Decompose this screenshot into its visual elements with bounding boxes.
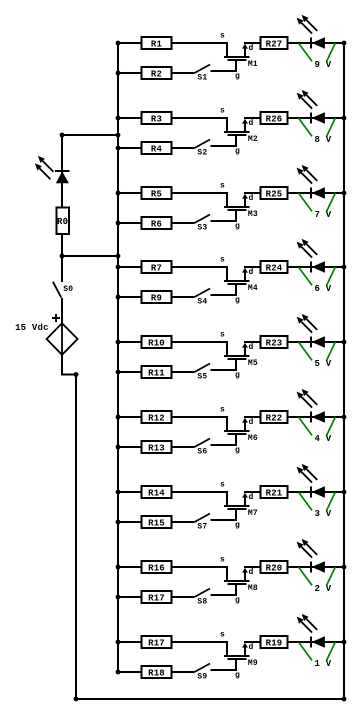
svg-text:M3: M3 xyxy=(248,210,258,219)
resistor R24 xyxy=(261,261,288,273)
svg-text:1 V: 1 V xyxy=(315,659,332,669)
svg-text:R12: R12 xyxy=(148,413,165,423)
junction on bus at tee xyxy=(116,254,121,259)
resistor R26 xyxy=(261,112,288,124)
junction bottom right corner xyxy=(342,697,347,702)
wire bus to R17 xyxy=(118,596,142,598)
svg-text:d: d xyxy=(249,44,254,53)
svg-text:R13: R13 xyxy=(148,443,165,453)
voltage marker 6 V xyxy=(299,267,336,294)
resistor R12 (row 6 top) xyxy=(142,411,172,423)
switch S4 xyxy=(195,289,211,307)
resistor R15 (row 7 bottom) xyxy=(142,516,172,528)
voltage marker 9 V xyxy=(299,43,336,70)
pin label d xyxy=(249,568,254,577)
wire gate lead xyxy=(211,284,237,295)
wire bus to R5 xyxy=(118,192,142,194)
resistor R3 (row 2 top) xyxy=(142,112,172,124)
wire bus to R11 xyxy=(118,371,142,373)
transistor M7 xyxy=(224,493,258,518)
wire R25 to bus xyxy=(288,192,345,194)
wire R27 to bus xyxy=(288,42,345,44)
pin label s xyxy=(220,405,225,414)
resistor R2 (row 1 bottom) xyxy=(142,67,172,79)
svg-text:g: g xyxy=(235,371,240,380)
wire bus to R7 xyxy=(118,266,142,268)
junction R17 row xyxy=(116,595,121,600)
wire source lead xyxy=(172,342,228,356)
svg-text:s: s xyxy=(220,555,225,564)
LED row 7 xyxy=(297,464,325,498)
LED row 2 xyxy=(297,90,325,124)
svg-text:R18: R18 xyxy=(148,668,165,678)
svg-text:R0: R0 xyxy=(57,217,68,227)
wire R9 to switch xyxy=(172,296,195,298)
resistor R13 (row 6 bottom) xyxy=(142,441,172,453)
svg-text:R4: R4 xyxy=(151,144,163,154)
switch S6 xyxy=(195,439,211,457)
svg-text:R14: R14 xyxy=(148,488,165,498)
svg-text:R26: R26 xyxy=(266,114,283,124)
switch S3 xyxy=(195,215,211,233)
svg-text:R27: R27 xyxy=(266,39,283,49)
wire R18 to switch xyxy=(172,671,195,673)
wire drain to R26 xyxy=(244,117,260,119)
junction R1 row xyxy=(116,41,121,46)
svg-text:M7: M7 xyxy=(248,509,258,518)
wire source lead xyxy=(172,417,228,431)
voltage marker 3 V xyxy=(299,492,336,519)
wire left bus xyxy=(117,42,119,673)
svg-text:R9: R9 xyxy=(151,293,162,303)
pin label s xyxy=(220,330,225,339)
svg-text:R22: R22 xyxy=(266,413,283,423)
resistor R25 xyxy=(261,187,288,199)
svg-text:g: g xyxy=(235,671,240,680)
transistor M8 xyxy=(224,568,258,593)
junction R13 row xyxy=(116,445,121,450)
pin label s xyxy=(220,31,225,40)
svg-text:M9: M9 xyxy=(248,659,258,668)
svg-text:9 V: 9 V xyxy=(315,60,332,70)
switch S7 xyxy=(195,514,211,532)
svg-text:M4: M4 xyxy=(248,284,258,293)
wire drain to R25 xyxy=(244,192,260,194)
wire bus to R16 xyxy=(118,566,142,568)
wire R6 to switch xyxy=(172,222,195,224)
svg-text:g: g xyxy=(235,596,240,605)
pin label g xyxy=(235,296,240,305)
junction R2 row xyxy=(116,71,121,76)
resistor R27 xyxy=(261,37,288,49)
svg-text:d: d xyxy=(249,493,254,502)
svg-text:g: g xyxy=(235,446,240,455)
pin label s xyxy=(220,255,225,264)
svg-text:M8: M8 xyxy=(248,584,258,593)
svg-text:M6: M6 xyxy=(248,434,258,443)
wire source lead xyxy=(172,567,228,581)
wire source lead xyxy=(172,118,228,132)
wire R19 to bus xyxy=(288,641,345,643)
wire R11 to switch xyxy=(172,371,195,373)
svg-text:M1: M1 xyxy=(248,60,258,69)
plus sign xyxy=(52,314,60,322)
junction at source bottom corner xyxy=(74,372,79,377)
svg-text:2 V: 2 V xyxy=(315,584,332,594)
pin label d xyxy=(249,643,254,652)
wire source lead xyxy=(172,267,228,281)
svg-text:R10: R10 xyxy=(148,338,165,348)
wire bus to R18 xyxy=(118,671,142,673)
pin label g xyxy=(235,72,240,81)
pin label g xyxy=(235,521,240,530)
wire bus to R13 xyxy=(118,446,142,448)
svg-text:R21: R21 xyxy=(266,488,283,498)
voltage marker 4 V xyxy=(299,417,336,444)
switch S2 xyxy=(195,140,211,158)
svg-text:s: s xyxy=(220,31,225,40)
resistor R6 (row 3 bottom) xyxy=(142,217,172,229)
pin label d xyxy=(249,343,254,352)
wire bus to R4 xyxy=(118,147,142,149)
wire bus to R1 xyxy=(118,42,142,44)
wire drain to R23 xyxy=(244,341,260,343)
LED row 6 xyxy=(297,389,325,423)
svg-text:d: d xyxy=(249,568,254,577)
resistor R17 (row 8 bottom) xyxy=(142,591,172,603)
wire drain to R19 xyxy=(244,641,260,643)
svg-text:M2: M2 xyxy=(248,135,258,144)
wire bus to R3 xyxy=(118,117,142,119)
wire source lead xyxy=(172,492,228,506)
svg-text:S5: S5 xyxy=(197,373,207,382)
LED row 1 xyxy=(297,15,325,49)
wire R21 to bus xyxy=(288,491,345,493)
resistor R9 (row 4 bottom) xyxy=(142,291,172,303)
svg-text:d: d xyxy=(249,418,254,427)
svg-text:3 V: 3 V xyxy=(315,509,332,519)
svg-text:15 Vdc: 15 Vdc xyxy=(15,323,49,333)
svg-text:S3: S3 xyxy=(197,224,207,233)
LED row 3 xyxy=(297,165,325,199)
svg-text:s: s xyxy=(220,405,225,414)
switch S1 xyxy=(195,65,211,83)
junction LED to bus xyxy=(342,41,347,46)
svg-text:d: d xyxy=(249,643,254,652)
resistor R1 (row 1 top) xyxy=(142,37,172,49)
pin label d xyxy=(249,44,254,53)
resistor R20 xyxy=(261,561,288,573)
svg-text:d: d xyxy=(249,268,254,277)
svg-text:R6: R6 xyxy=(151,219,162,229)
wire bus to R6 xyxy=(118,222,142,224)
junction LED to bus xyxy=(342,565,347,570)
pin label d xyxy=(249,194,254,203)
junction R0 bottom tee xyxy=(60,254,65,259)
wire gate lead xyxy=(211,135,237,146)
voltage marker 7 V xyxy=(299,193,336,220)
junction on bus at top connect xyxy=(116,133,121,138)
svg-text:s: s xyxy=(220,106,225,115)
pin label g xyxy=(235,446,240,455)
transistor M4 xyxy=(224,268,258,293)
svg-text:S7: S7 xyxy=(197,523,207,532)
junction R7 row xyxy=(116,265,121,270)
pin label s xyxy=(220,106,225,115)
pin label d xyxy=(249,493,254,502)
resistor R21 xyxy=(261,486,288,498)
junction LED to bus xyxy=(342,265,347,270)
pin label g xyxy=(235,596,240,605)
switch S0 xyxy=(53,282,73,298)
svg-text:S9: S9 xyxy=(197,673,207,682)
svg-text:g: g xyxy=(235,222,240,231)
wire R2 to switch xyxy=(172,72,195,74)
wire bottom rail xyxy=(76,698,344,700)
junction LED to bus xyxy=(342,191,347,196)
junction LED to bus xyxy=(342,490,347,495)
voltage marker 8 V xyxy=(299,118,336,145)
transistor M1 xyxy=(224,44,258,69)
svg-text:4 V: 4 V xyxy=(315,434,332,444)
svg-text:s: s xyxy=(220,480,225,489)
svg-text:R16: R16 xyxy=(148,563,165,573)
junction R6 row xyxy=(116,221,121,226)
wire bus to R9 xyxy=(118,296,142,298)
wire left branch vertical to R0 xyxy=(61,135,63,208)
pin label s xyxy=(220,480,225,489)
wire source lead xyxy=(172,193,228,207)
voltage marker 1 V xyxy=(299,642,336,669)
wire bus to R17 xyxy=(118,641,142,643)
pin label g xyxy=(235,371,240,380)
svg-text:R25: R25 xyxy=(266,189,283,199)
wire S0 to source xyxy=(61,298,63,324)
source V0 diamond xyxy=(47,323,78,355)
svg-text:M5: M5 xyxy=(248,359,258,368)
transistor M2 xyxy=(224,119,258,144)
svg-text:R2: R2 xyxy=(151,69,162,79)
transistor M5 xyxy=(224,343,258,368)
voltage marker 2 V xyxy=(299,567,336,594)
resistor R19 xyxy=(261,636,288,648)
pin label d xyxy=(249,418,254,427)
transistor M3 xyxy=(224,194,258,219)
wire gate lead xyxy=(211,210,237,221)
wire drain to R21 xyxy=(244,491,260,493)
switch S5 xyxy=(195,364,211,382)
svg-text:R17: R17 xyxy=(148,593,165,603)
junction LED to bus xyxy=(342,116,347,121)
junction R3 row xyxy=(116,116,121,121)
resistor R22 xyxy=(261,411,288,423)
resistor R18 (row 9 bottom) xyxy=(142,666,172,678)
pin label d xyxy=(249,268,254,277)
switch S8 xyxy=(195,589,211,607)
svg-text:g: g xyxy=(235,521,240,530)
wire R4 to switch xyxy=(172,147,195,149)
wire drain to R24 xyxy=(244,266,260,268)
wire R24 to bus xyxy=(288,266,345,268)
svg-text:d: d xyxy=(249,343,254,352)
svg-text:S8: S8 xyxy=(197,598,207,607)
wire gate lead xyxy=(211,659,237,670)
LED row 4 xyxy=(297,239,325,273)
wire R26 to bus xyxy=(288,117,345,119)
svg-text:R15: R15 xyxy=(148,518,165,528)
resistor R11 (row 5 bottom) xyxy=(142,366,172,378)
pin label s xyxy=(220,630,225,639)
svg-text:d: d xyxy=(249,194,254,203)
junction R17 row xyxy=(116,640,121,645)
svg-text:5 V: 5 V xyxy=(315,359,332,369)
wire R0 to switch S0 xyxy=(61,234,63,282)
junction R12 row xyxy=(116,415,121,420)
resistor R14 (row 7 top) xyxy=(142,486,172,498)
voltage marker 5 V xyxy=(299,342,336,369)
wire tee to bus xyxy=(62,255,118,257)
svg-text:g: g xyxy=(235,72,240,81)
wire R17 to switch xyxy=(172,596,195,598)
svg-text:R3: R3 xyxy=(151,114,162,124)
svg-text:S4: S4 xyxy=(197,298,207,307)
pin label s xyxy=(220,555,225,564)
svg-text:R23: R23 xyxy=(266,338,283,348)
wire R20 to bus xyxy=(288,566,345,568)
junction LED to bus xyxy=(342,340,347,345)
junction R4 row xyxy=(116,146,121,151)
svg-text:s: s xyxy=(220,255,225,264)
pin label g xyxy=(235,222,240,231)
svg-text:8 V: 8 V xyxy=(315,135,332,145)
svg-text:R20: R20 xyxy=(266,563,283,573)
resistor R17 (row 9 top) xyxy=(142,636,172,648)
pin label s xyxy=(220,181,225,190)
wire source to bottom rail xyxy=(62,354,76,699)
wire gate lead xyxy=(211,359,237,370)
svg-text:R5: R5 xyxy=(151,189,162,199)
svg-text:R1: R1 xyxy=(151,39,163,49)
resistor R0 xyxy=(56,207,68,234)
wire top connect of left branch xyxy=(62,134,118,136)
wire right bus xyxy=(343,42,345,699)
svg-text:s: s xyxy=(220,181,225,190)
junction R15 row xyxy=(116,520,121,525)
wire gate lead xyxy=(211,60,237,71)
resistor R5 (row 3 top) xyxy=(142,187,172,199)
transistor M6 xyxy=(224,418,258,443)
LED row 9 xyxy=(297,614,325,648)
wire R23 to bus xyxy=(288,341,345,343)
resistor R10 (row 5 top) xyxy=(142,336,172,348)
pin label g xyxy=(235,671,240,680)
wire source lead xyxy=(172,642,228,656)
junction R11 row xyxy=(116,370,121,375)
pin label d xyxy=(249,119,254,128)
wire gate lead xyxy=(211,434,237,445)
wire bus to R12 xyxy=(118,416,142,418)
svg-text:6 V: 6 V xyxy=(315,284,332,294)
svg-text:R17: R17 xyxy=(148,638,165,648)
wire gate lead xyxy=(211,509,237,520)
svg-text:s: s xyxy=(220,330,225,339)
wire bus to R15 xyxy=(118,521,142,523)
wire drain to R27 xyxy=(244,42,260,44)
junction R9 row xyxy=(116,295,121,300)
svg-text:d: d xyxy=(249,119,254,128)
LED D0 xyxy=(35,156,70,183)
resistor R4 (row 2 bottom) xyxy=(142,142,172,154)
junction R10 row xyxy=(116,340,121,345)
wire drain to R20 xyxy=(244,566,260,568)
wire drain to R22 xyxy=(244,416,260,418)
pin label g xyxy=(235,147,240,156)
LED row 5 xyxy=(297,314,325,348)
switch S9 xyxy=(195,664,211,682)
wire source lead xyxy=(172,43,228,57)
wire R22 to bus xyxy=(288,416,345,418)
wire R15 to switch xyxy=(172,521,195,523)
junction LED to bus xyxy=(342,415,347,420)
resistor R7 (row 4 top) xyxy=(142,261,172,273)
svg-text:7 V: 7 V xyxy=(315,210,332,220)
svg-text:g: g xyxy=(235,296,240,305)
svg-text:R19: R19 xyxy=(266,638,283,648)
svg-text:S1: S1 xyxy=(197,74,207,83)
resistor R23 xyxy=(261,336,288,348)
wire bus to R10 xyxy=(118,341,142,343)
wire R13 to switch xyxy=(172,446,195,448)
transistor M9 xyxy=(224,643,258,668)
value label 15 Vdc xyxy=(15,323,49,333)
junction left branch top xyxy=(60,133,65,138)
junction R5 row xyxy=(116,191,121,196)
junction bottom left corner xyxy=(74,697,79,702)
svg-text:S2: S2 xyxy=(197,149,207,158)
svg-text:S0: S0 xyxy=(63,285,73,294)
resistor R16 (row 8 top) xyxy=(142,561,172,573)
svg-text:s: s xyxy=(220,630,225,639)
wire gate lead xyxy=(211,584,237,595)
junction LED to bus xyxy=(342,640,347,645)
svg-text:R7: R7 xyxy=(151,263,162,273)
svg-text:R11: R11 xyxy=(148,368,165,378)
svg-text:R24: R24 xyxy=(266,263,283,273)
wire bus to R14 xyxy=(118,491,142,493)
junction R16 row xyxy=(116,565,121,570)
LED row 8 xyxy=(297,539,325,573)
junction R14 row xyxy=(116,490,121,495)
svg-text:S6: S6 xyxy=(197,448,207,457)
junction R18 row xyxy=(116,670,121,675)
wire bus to R2 xyxy=(118,72,142,74)
svg-text:g: g xyxy=(235,147,240,156)
